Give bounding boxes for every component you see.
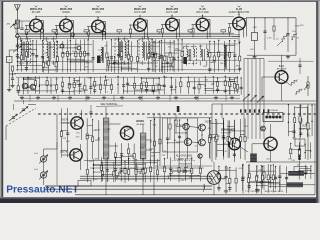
wire r52 — [263, 165, 265, 172]
svg-text:ALL GROUNDS: ALL GROUNDS — [176, 155, 193, 158]
coil L4 — [224, 45, 225, 48]
pot volume — [307, 76, 309, 96]
box right b — [294, 167, 307, 175]
wire q1314 — [185, 130, 187, 138]
wire cluster gapF — [107, 57, 109, 71]
resistor R50 — [167, 172, 172, 179]
resistor R31 — [291, 33, 296, 40]
svg-text:47K: 47K — [75, 44, 79, 46]
ground — [195, 96, 197, 98]
wire cluster bot2 — [164, 158, 166, 182]
tuning cap C1A — [16, 38, 18, 45]
resistor R33 — [295, 88, 302, 94]
coil L3 — [101, 47, 102, 50]
svg-text:CONNECTED VIA: CONNECTED VIA — [175, 157, 193, 160]
wire audio mesh3 — [150, 120, 152, 164]
svg-text:10uf: 10uf — [34, 169, 38, 171]
terminal ring a — [40, 29, 43, 32]
wire T10 leads — [142, 124, 144, 133]
svg-text:100K: 100K — [149, 149, 154, 151]
ground — [157, 96, 159, 98]
resistor R base Q2 — [55, 30, 57, 35]
wire cluster midright3 — [208, 118, 210, 158]
wire bottom bus2 — [45, 188, 212, 190]
diode D1 — [252, 33, 258, 41]
dark cap CE1 — [97, 56, 101, 64]
resistor row bias — [157, 30, 162, 32]
wire cluster stage2 — [56, 41, 58, 72]
svg-text:39K: 39K — [250, 49, 254, 51]
wire mid right h — [246, 161, 316, 163]
top scan edge — [0, 0, 320, 1]
terminal ring ant — [16, 34, 20, 38]
transformer T3 — [115, 39, 128, 63]
wire h38 — [20, 38, 238, 40]
choke L9 — [287, 182, 303, 187]
transformer T4 — [139, 39, 152, 63]
svg-text:33K: 33K — [180, 180, 184, 182]
ground b2 — [225, 190, 227, 192]
ground — [103, 96, 105, 98]
wire cluster bot1 — [86, 158, 88, 183]
output transformer T10 — [140, 133, 146, 159]
battery B1 — [298, 148, 301, 151]
transistor Q5 2N45-455 — [166, 18, 179, 31]
wire long v160 — [159, 114, 161, 152]
wire h77 — [16, 76, 238, 78]
terminal ring c — [102, 32, 105, 35]
transistor Q14 small — [199, 124, 206, 131]
wire cluster mid2 — [61, 77, 63, 94]
svg-text:47K: 47K — [126, 55, 130, 57]
wire cluster farright — [290, 143, 292, 158]
svg-text:SEE TERMINAL: SEE TERMINAL — [100, 103, 118, 106]
ground — [231, 96, 233, 98]
svg-text:82K: 82K — [136, 171, 140, 173]
transistor Q12 2N109 — [120, 126, 133, 139]
svg-text:MIXER: MIXER — [62, 12, 70, 14]
antenna — [14, 4, 20, 10]
svg-text:68K: 68K — [164, 77, 168, 79]
wire bot h2 — [90, 167, 204, 169]
svg-text:56K: 56K — [78, 91, 82, 93]
wire left link — [9, 73, 16, 75]
svg-text:2N45-455: 2N45-455 — [92, 7, 105, 11]
svg-text:RF AMP: RF AMP — [32, 11, 41, 14]
wire top bus — [16, 32, 234, 34]
svg-text:15K: 15K — [28, 49, 32, 51]
parts right 300 — [299, 58, 301, 74]
svg-text:K-45: K-45 — [199, 7, 206, 11]
svg-text:AF AMP: AF AMP — [136, 123, 145, 126]
wire Q7 leads — [238, 14, 240, 17]
svg-text:39K: 39K — [175, 49, 179, 51]
svg-text:82K: 82K — [225, 168, 229, 170]
wire rb3 — [247, 54, 296, 56]
resistor R base Q6 — [192, 29, 194, 34]
transformer T5 — [184, 47, 197, 64]
svg-text:82K: 82K — [106, 79, 110, 81]
svg-text:ADDITIONAL SPKR: ADDITIONAL SPKR — [265, 190, 284, 193]
wire cluster mid4 — [187, 77, 189, 94]
box bottom left — [78, 181, 91, 187]
svg-text:47K: 47K — [81, 61, 85, 63]
transistor Q3 2N45-455 — [92, 20, 105, 33]
transistor q small b — [30, 84, 36, 90]
box jack J1 — [7, 57, 13, 63]
wire h61 — [24, 60, 88, 62]
svg-text:15K: 15K — [85, 66, 89, 68]
svg-text:2N578: 2N578 — [60, 151, 68, 154]
tuning arrow — [10, 24, 14, 28]
resistor row bias — [25, 30, 30, 32]
wire cluster mid3 — [123, 77, 125, 94]
ground b1 — [257, 189, 259, 191]
wire cluster pw1 — [287, 104, 289, 136]
dashed gang line — [6, 108, 36, 126]
svg-text:27K: 27K — [198, 126, 202, 128]
transistor Q7 K-45 — [233, 17, 246, 30]
transistor Q13 small — [183, 123, 189, 129]
resistor row bias — [117, 30, 122, 32]
trimmer V1 — [40, 156, 46, 162]
trimmer ring d — [60, 44, 64, 48]
wire cluster gapC — [229, 77, 231, 94]
svg-text:39K: 39K — [236, 66, 240, 68]
svg-text:33K: 33K — [107, 129, 111, 131]
wire h34 — [20, 34, 240, 36]
ground — [139, 96, 141, 98]
svg-text:OSC: OSC — [96, 12, 101, 14]
transistor Q6 K-45 — [196, 18, 209, 31]
wire long v154 — [153, 114, 155, 195]
wire right col — [299, 104, 301, 160]
svg-text:39K: 39K — [222, 178, 226, 180]
resistor row bias — [84, 30, 89, 32]
wire mid bus b — [18, 94, 240, 96]
resistor R41 — [307, 123, 309, 129]
ground det — [254, 55, 256, 57]
transistor Q16 2N109 — [264, 137, 277, 150]
dark cap CE3 — [177, 106, 180, 112]
wire relay — [280, 172, 288, 174]
svg-text:15K: 15K — [140, 147, 144, 149]
svg-text:1ST IF AMP: 1ST IF AMP — [134, 11, 147, 14]
transistor Q18 small — [184, 138, 191, 145]
wire det down — [238, 30, 240, 44]
transistor Q19 small — [199, 139, 206, 146]
wire pwr — [234, 120, 236, 138]
box right a — [295, 139, 305, 146]
wire q11 leads — [62, 154, 70, 156]
module outline — [163, 118, 198, 152]
wire ant lead — [16, 29, 18, 35]
transistor q small a — [22, 83, 28, 89]
ground — [37, 96, 39, 98]
resistor row bias — [52, 30, 57, 32]
wire cluster botright2 — [298, 165, 300, 180]
transistor Q1 2N50-454 — [30, 19, 43, 32]
ground — [21, 96, 23, 98]
wire T9 leads — [105, 107, 107, 118]
wire ant jog — [9, 49, 17, 51]
wire rb4 — [273, 18, 275, 40]
svg-text:10uf: 10uf — [34, 153, 38, 155]
wire bottom bus1 — [45, 185, 212, 187]
relay K2 — [288, 171, 304, 176]
relay coil box — [263, 113, 283, 122]
svg-text:6.8K: 6.8K — [253, 27, 258, 29]
svg-text:2N50-454: 2N50-454 — [30, 7, 43, 11]
svg-text:33K: 33K — [49, 47, 53, 49]
resistor stack — [175, 120, 177, 125]
wire cluster stage4 — [151, 39, 153, 72]
trimmer V2 — [40, 172, 46, 178]
cap C2 — [11, 77, 14, 79]
wire cluster midright2 — [227, 120, 229, 158]
resistor R40 — [299, 116, 301, 122]
ground — [69, 96, 71, 98]
resistor R51 — [182, 166, 187, 173]
resistor R base Q5 — [161, 29, 163, 34]
wire bus y74 — [14, 73, 240, 75]
wire h166mid — [154, 165, 212, 167]
svg-text:2N45-455: 2N45-455 — [134, 7, 147, 11]
wire h70 — [16, 69, 238, 71]
contact row — [240, 109, 242, 112]
trimmer ring e — [77, 46, 81, 50]
resistor R base Q4 — [129, 29, 131, 34]
svg-text:27K: 27K — [79, 83, 83, 85]
transformer T2 — [44, 39, 57, 63]
wire meter — [213, 162, 215, 171]
svg-text:68K: 68K — [253, 160, 257, 162]
gang cap a — [9, 114, 18, 121]
coil small bot — [204, 185, 205, 187]
resistor R54 — [139, 167, 144, 174]
ground G1b — [12, 84, 14, 86]
bottom scan edge — [0, 198, 320, 203]
svg-text:68K: 68K — [129, 155, 133, 157]
coil small top — [199, 169, 200, 171]
ground — [121, 96, 123, 98]
relay coil K1 — [250, 154, 257, 163]
wire h61 right — [268, 60, 314, 62]
svg-text:27K: 27K — [161, 155, 165, 157]
svg-text:82K: 82K — [203, 66, 207, 68]
svg-text:27K: 27K — [199, 46, 203, 48]
svg-text:2.2M: 2.2M — [265, 149, 270, 151]
wire Q5 leads — [171, 15, 173, 18]
wire q9 — [281, 83, 283, 101]
wire Q3 leads — [97, 17, 99, 20]
wire top bus 2 — [16, 36, 240, 38]
resistor R30 — [281, 35, 286, 42]
wire Q2 leads — [65, 16, 67, 19]
wire cluster gapD — [60, 108, 62, 157]
svg-text:15K: 15K — [94, 179, 98, 181]
wire rb2 — [287, 18, 289, 52]
right scan edge — [316, 0, 318, 203]
wire mid mesh2 — [209, 120, 211, 159]
wire cluster bot extra — [102, 162, 104, 181]
wire bottom bus0b — [80, 178, 212, 180]
svg-text:2N229: 2N229 — [205, 122, 212, 124]
transformer T1 — [18, 39, 31, 63]
wire left drop — [56, 160, 58, 185]
wire cluster stage1 — [16, 40, 18, 71]
small circle j — [198, 154, 202, 158]
svg-text:39K: 39K — [234, 78, 238, 80]
resistor R53 — [116, 171, 121, 178]
resistor row bias — [221, 30, 226, 32]
speaker M1 — [207, 171, 221, 185]
svg-text:33K: 33K — [66, 141, 70, 143]
transistor Q9 B-64 — [275, 71, 288, 84]
antenna coil L1 — [15, 20, 19, 29]
wire audio frame — [56, 114, 58, 160]
driver transformer T9 — [103, 118, 109, 159]
wire det out — [246, 17, 296, 19]
svg-text:100K: 100K — [27, 78, 32, 80]
resistor R base Q7 — [228, 28, 230, 33]
gang cap b — [20, 107, 29, 114]
svg-text:TV CONV: TV CONV — [245, 191, 255, 193]
wire audio mesh — [86, 118, 88, 159]
wire mid bus c — [14, 100, 316, 102]
wire q10 leads — [62, 122, 71, 124]
resistor R52 — [263, 172, 265, 178]
wire cluster stage5 — [209, 41, 211, 73]
svg-text:15K: 15K — [73, 48, 77, 50]
wire trimmer — [43, 149, 45, 152]
svg-text:2.2M: 2.2M — [295, 26, 300, 28]
transistor Q4 2N45-455 — [134, 19, 147, 32]
terminal ring b — [71, 33, 74, 36]
dark cap CE2 — [184, 57, 187, 64]
svg-text:B-64: B-64 — [279, 64, 285, 68]
transistor Q15 2N456A — [229, 138, 241, 150]
svg-text:39K: 39K — [292, 137, 296, 139]
wire Q4 leads — [139, 16, 141, 19]
switch arrows — [243, 94, 250, 101]
ground G1 — [8, 88, 10, 90]
wire cluster stage3 — [106, 41, 108, 72]
left scan edge — [0, 0, 1, 203]
svg-text:4.7K: 4.7K — [267, 38, 272, 40]
svg-text:J-6 RELAY: J-6 RELAY — [268, 109, 279, 112]
wire v links 95-101 — [29, 95, 31, 101]
wire mid v links — [211, 104, 213, 162]
cap C40 — [292, 130, 295, 132]
wire gang — [5, 126, 7, 140]
svg-text:PWR AMP: PWR AMP — [221, 131, 232, 134]
wire mid mesh — [167, 118, 169, 159]
resistor R32 — [290, 79, 297, 85]
resistor R base Q1 — [25, 30, 27, 35]
wire right bus bundle — [243, 59, 245, 140]
wire cluster gapB — [148, 42, 150, 72]
svg-text:47K: 47K — [258, 170, 262, 172]
svg-text:10K: 10K — [220, 63, 224, 65]
wire cluster gapE — [161, 56, 163, 73]
svg-text:6.8K: 6.8K — [17, 57, 22, 59]
resistor row bias — [188, 30, 193, 32]
wire agc line — [36, 15, 234, 17]
wire right bus top — [244, 58, 264, 60]
wire bot right mesh — [248, 165, 250, 190]
svg-text:47K: 47K — [153, 125, 157, 127]
wire Q1 leads — [35, 16, 37, 19]
ground — [175, 96, 177, 98]
svg-text:6.8K: 6.8K — [84, 90, 89, 92]
ground — [215, 96, 217, 98]
wire h118 — [147, 117, 212, 119]
transistor Q2 2N45-455 — [60, 19, 73, 32]
svg-text:39K: 39K — [86, 62, 90, 64]
wire cluster botright4 — [242, 164, 244, 193]
wire bot h1 — [84, 160, 160, 162]
svg-text:2N109: 2N109 — [136, 119, 144, 123]
svg-text:10K: 10K — [204, 80, 208, 82]
svg-text:2N45-455: 2N45-455 — [166, 7, 179, 11]
transistor Q10 2N578 — [71, 117, 83, 129]
svg-text:68K: 68K — [212, 62, 216, 64]
schematic ink group — [6, 4, 316, 194]
transistor Q17 small — [261, 126, 266, 131]
svg-text:15K: 15K — [189, 177, 193, 179]
resistor R base Q3 — [87, 31, 89, 36]
svg-text:68K: 68K — [94, 158, 98, 160]
svg-text:2ND IF AMP: 2ND IF AMP — [196, 11, 209, 14]
transformer T6 — [200, 49, 201, 52]
wire Q6 leads — [202, 15, 204, 18]
wire rb1 — [264, 18, 266, 50]
wire h44 — [20, 44, 92, 46]
ground — [53, 96, 55, 98]
wire bottom long — [75, 194, 315, 196]
wire h98 — [20, 97, 240, 99]
svg-text:1ST IF AMP: 1ST IF AMP — [166, 11, 179, 14]
wire top right link — [238, 11, 240, 15]
wire cluster bot3 — [218, 166, 220, 191]
svg-text:15K: 15K — [76, 132, 80, 134]
svg-text:2N45-455: 2N45-455 — [60, 7, 73, 11]
resistor R1 — [11, 66, 13, 71]
wire cluster mid1 — [17, 78, 19, 95]
svg-text:6.8K: 6.8K — [164, 56, 169, 58]
svg-text:100K: 100K — [169, 65, 174, 67]
svg-text:AFC AMP: AFC AMP — [277, 68, 287, 71]
wire left column — [8, 63, 10, 89]
wire bottom right v — [314, 104, 316, 195]
wire audio mesh2 — [114, 143, 116, 165]
dashed section line — [38, 113, 316, 115]
cap CA — [89, 111, 92, 113]
svg-text:100K: 100K — [215, 136, 220, 138]
svg-text:10K: 10K — [89, 161, 93, 163]
wire bottom bus0a — [80, 175, 212, 177]
wire front extra — [16, 20, 30, 22]
ground — [87, 96, 89, 98]
transistor Q11 2N578 — [70, 149, 82, 161]
svg-text:4.7K: 4.7K — [223, 151, 228, 153]
svg-text:82K: 82K — [87, 77, 91, 79]
wire cluster gapA — [42, 58, 44, 72]
